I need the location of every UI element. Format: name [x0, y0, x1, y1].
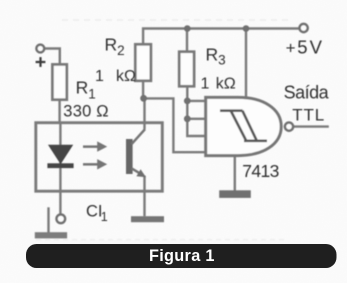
svg-text:330 Ω: 330 Ω — [63, 103, 108, 121]
svg-text:1kΩ: 1kΩ — [201, 76, 236, 93]
svg-text:TTL: TTL — [292, 106, 324, 125]
svg-text:7413: 7413 — [242, 161, 279, 181]
svg-text:Figura 1: Figura 1 — [149, 247, 215, 265]
svg-text:Saída: Saída — [284, 83, 330, 103]
svg-text:+5V: +5V — [286, 36, 323, 57]
svg-text:1kΩ: 1kΩ — [95, 68, 136, 85]
